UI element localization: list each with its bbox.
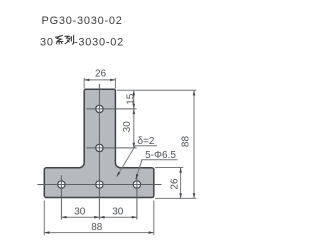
centerline hole H5 vertical bbox=[136, 175, 138, 219]
svg-text:30: 30 bbox=[122, 121, 133, 133]
extension line bar top right bbox=[155, 167, 183, 169]
svg-text:30: 30 bbox=[74, 206, 86, 217]
svg-text:88: 88 bbox=[180, 136, 191, 148]
svg-text:-3030-02: -3030-02 bbox=[74, 36, 124, 48]
extension line stem top right bbox=[117, 89, 197, 91]
svg-text:30: 30 bbox=[112, 206, 124, 217]
centerline hole H3 vertical bbox=[60, 175, 62, 219]
hole H1 bbox=[96, 105, 103, 112]
dimension line 15 / 30 right of stem bbox=[133, 90, 135, 148]
glyph 列 bbox=[65, 35, 74, 44]
centerline horizontal bar axis bbox=[38, 184, 162, 186]
leader 5-phi6.5 bbox=[136, 160, 178, 180]
centerline hole H1 horizontal bbox=[86, 108, 136, 110]
dimension line 26 right bbox=[180, 168, 182, 199]
series label text 30系列-3030-02 bbox=[40, 35, 124, 48]
hole H3 bbox=[58, 181, 65, 188]
svg-text:5-Φ6.5: 5-Φ6.5 bbox=[145, 150, 176, 161]
svg-text:26: 26 bbox=[95, 69, 107, 80]
dimension line 88 right bbox=[193, 90, 195, 198]
extension lines top 26 dim bbox=[84, 78, 115, 89]
T-plate body bbox=[44, 89, 154, 197]
extension lines bottom 88 dim bbox=[44, 201, 154, 236]
centerline vertical stem axis bbox=[98, 84, 100, 220]
dimension line 30 30 bottom bbox=[61, 216, 136, 218]
hole H5 bbox=[133, 181, 140, 188]
svg-text:δ=2: δ=2 bbox=[138, 136, 155, 147]
hole H4 bbox=[96, 181, 103, 188]
hole H2 bbox=[96, 144, 103, 151]
extension line bar bottom right bbox=[155, 197, 196, 199]
svg-text:26: 26 bbox=[170, 178, 181, 190]
dimension line 88 bottom bbox=[44, 232, 154, 234]
svg-text:88: 88 bbox=[91, 222, 103, 233]
dimension line 26 top bbox=[84, 79, 115, 81]
leader delta=2 bbox=[117, 146, 157, 177]
centerline hole H2 horizontal bbox=[86, 147, 136, 149]
svg-text:PG30-3030-02: PG30-3030-02 bbox=[42, 15, 123, 27]
glyph 系 bbox=[56, 35, 63, 44]
svg-text:15: 15 bbox=[125, 93, 136, 105]
svg-text:30: 30 bbox=[40, 36, 54, 48]
